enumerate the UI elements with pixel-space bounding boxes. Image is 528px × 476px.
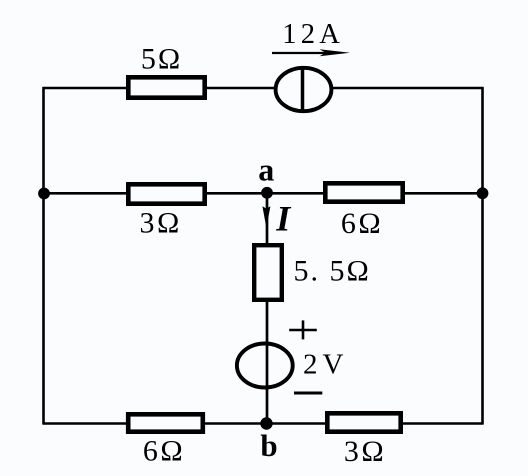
current arrow I (downward from node a) [262,206,270,228]
wire top (left loop top side) [44,87,483,90]
wire middle branch vertical (a to b through source) [266,193,269,423]
svg-text:12A: 12A [282,19,344,50]
svg-text:2V: 2V [303,349,348,381]
wire left vertical [42,87,45,425]
voltage source 2V (circle) [237,344,293,388]
svg-text:3Ω: 3Ω [344,435,386,468]
arrow for 12A current direction [272,49,350,56]
svg-text:I: I [275,199,292,239]
resistor 3Ω (middle left) [128,184,204,203]
svg-text:3Ω: 3Ω [140,207,182,240]
node a junction dot [261,187,273,199]
resistor 6Ω (middle right) [325,183,402,201]
resistor 6Ω (bottom left) [128,414,203,431]
polarity plus sign [289,320,317,339]
resistor 3Ω (bottom right) [327,413,400,431]
svg-text:6Ω: 6Ω [143,435,185,468]
svg-text:5Ω: 5Ω [141,42,182,75]
resistor 5Ω (top) [128,77,204,97]
svg-text:a: a [258,151,274,187]
svg-text:5. 5Ω: 5. 5Ω [294,255,371,288]
wire middle (node row) [44,192,483,195]
svg-text:6Ω: 6Ω [341,207,383,240]
node b junction dot [260,417,272,429]
junction dot right [477,187,489,199]
wire right vertical [481,87,484,425]
resistor 5.5Ω (vertical) [254,245,282,300]
polarity minus sign [294,392,322,395]
junction dot left [38,188,50,200]
svg-text:b: b [260,428,277,463]
current source 12A (circle with bar) [276,68,332,111]
wire bottom [44,422,483,425]
